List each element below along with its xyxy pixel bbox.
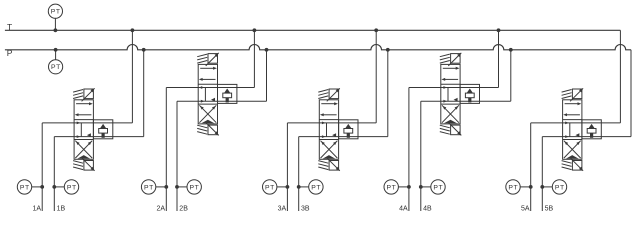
gauge PT port 1A — [17, 180, 31, 194]
actuator (spring + prop. solenoid) top V1 — [73, 96, 83, 99]
svg-text:5A: 5A — [521, 206, 530, 213]
junction on T bus at PT — [54, 28, 58, 32]
actuator (spring + prop. solenoid) bottom V2 — [197, 125, 207, 128]
actuator (spring + prop. solenoid) top V2 — [197, 61, 207, 64]
wire B/P passage section 1 — [54, 136, 143, 138]
svg-text:PT: PT — [311, 184, 321, 191]
node P bus line with crossover hops — [5, 44, 631, 49]
check valve block V3 — [339, 120, 358, 139]
valve V3 body (3-position) — [319, 100, 338, 160]
junction P bus / feed 4 — [509, 48, 513, 52]
wire port 5A line — [530, 123, 532, 211]
junction T bus / feed 1 — [131, 28, 135, 32]
wire port 1A line — [41, 123, 43, 211]
wire PT-5B connector — [542, 186, 552, 188]
junction 1B — [52, 185, 56, 189]
svg-text:PT: PT — [265, 184, 275, 191]
junction 3B — [297, 185, 301, 189]
svg-text:PT: PT — [51, 64, 61, 71]
actuator (spring + prop. solenoid) bottom V3 — [318, 161, 328, 164]
valve V5 crossed position — [564, 141, 581, 158]
valve V1 centre position detail — [80, 123, 82, 137]
junction 5B — [540, 185, 544, 189]
svg-text:2A: 2A — [157, 206, 166, 213]
gauge PT port 1B — [64, 180, 78, 194]
svg-text:1B: 1B — [57, 206, 66, 213]
wire port 1B line — [53, 137, 55, 211]
wire T feed drop section 2 — [253, 30, 255, 87]
valve V1 crossed position — [75, 141, 92, 158]
wire A/T passage section 2 — [166, 87, 254, 89]
gauge PT port 3B — [309, 180, 323, 194]
wire PT-1A connector — [32, 186, 43, 188]
svg-text:T: T — [7, 22, 12, 32]
junction 2A — [164, 185, 168, 189]
svg-text:5B: 5B — [545, 206, 554, 213]
valve V2 body (3-position) — [198, 64, 217, 124]
wire port 2B line — [176, 101, 178, 211]
valve V4 crossed position — [442, 105, 459, 122]
wire PT-P stem — [55, 50, 57, 60]
valve V4 top position arrows — [443, 67, 456, 69]
wire B/P passage section 5 — [542, 136, 631, 138]
junction 3A — [286, 185, 290, 189]
gauge PT port 4B — [431, 180, 445, 194]
wire A/T passage section 3 — [287, 122, 376, 124]
svg-text:3B: 3B — [301, 206, 310, 213]
actuator (spring + prop. solenoid) top V5 — [562, 96, 572, 99]
wire PT-4A connector — [398, 186, 409, 188]
svg-text:4A: 4A — [399, 206, 408, 213]
gauge PT on T bus — [48, 4, 62, 18]
wire A/T passage section 5 — [531, 122, 621, 124]
actuator (spring + prop. solenoid) top V4 — [440, 61, 450, 64]
node T bus line — [5, 29, 621, 31]
junction T bus / feed 2 — [253, 28, 257, 32]
svg-text:3A: 3A — [278, 206, 287, 213]
wire port 5B line — [541, 137, 543, 211]
wire P feed drop section 3 — [387, 50, 389, 137]
wire P feed drop section 2 — [266, 50, 268, 101]
gauge PT port 3A — [263, 180, 277, 194]
svg-text:PT: PT — [433, 184, 443, 191]
wire P bus right drop (to section 5) — [630, 50, 632, 137]
valve V3 top position arrows — [321, 103, 334, 105]
valve V2 crossed position — [199, 105, 216, 122]
svg-text:PT: PT — [67, 184, 77, 191]
valve V4 centre position detail — [447, 88, 449, 102]
svg-text:PT: PT — [555, 184, 565, 191]
svg-text:PT: PT — [190, 184, 200, 191]
wire PT-2B connector — [177, 186, 187, 188]
wire PT-1B connector — [54, 186, 64, 188]
svg-text:1A: 1A — [32, 206, 41, 213]
valve V5 top position arrows — [565, 103, 578, 105]
junction 4B — [419, 185, 423, 189]
valve V5 body (3-position) — [563, 100, 582, 160]
wire T bus right drop (to section 5) — [619, 30, 621, 123]
valve V1 body (3-position) — [74, 100, 93, 160]
svg-text:P: P — [7, 48, 13, 58]
svg-text:PT: PT — [144, 184, 154, 191]
wire T feed drop section 4 — [498, 30, 500, 87]
check valve block V4 — [460, 84, 479, 103]
junction P bus / feed 3 — [386, 48, 390, 52]
junction P bus / feed 2 — [265, 48, 269, 52]
wire P feed drop section 4 — [510, 50, 512, 101]
actuator (spring + prop. solenoid) bottom V1 — [73, 161, 83, 164]
wire T feed drop section 1 — [131, 30, 133, 123]
gauge PT port 2A — [141, 180, 155, 194]
gauge PT port 2B — [187, 180, 201, 194]
gauge PT port 5A — [506, 180, 520, 194]
wire PT-T stem — [54, 18, 56, 30]
actuator (spring + prop. solenoid) bottom V4 — [440, 125, 450, 128]
valve V1 top position arrows — [76, 103, 89, 105]
check valve block V5 — [582, 120, 601, 139]
valve V3 centre position detail — [326, 123, 328, 137]
junction P bus / feed 1 — [142, 48, 146, 52]
wire port 4A line — [408, 88, 410, 212]
wire T feed drop section 3 — [375, 30, 377, 123]
wire B/P passage section 3 — [299, 136, 388, 138]
junction 4A — [407, 185, 411, 189]
svg-text:PT: PT — [20, 184, 30, 191]
valve V2 centre position detail — [204, 88, 206, 102]
svg-text:2B: 2B — [179, 206, 188, 213]
wire port 3B line — [298, 137, 300, 211]
wire PT-4B connector — [421, 186, 431, 188]
gauge PT port 5B — [552, 180, 566, 194]
svg-text:PT: PT — [51, 9, 61, 16]
wire port 2A line — [165, 88, 167, 212]
actuator (spring + prop. solenoid) bottom V5 — [562, 161, 572, 164]
gauge PT port 4A — [384, 180, 398, 194]
junction T bus / feed 4 — [497, 28, 501, 32]
wire PT-3A connector — [277, 186, 288, 188]
junction 1A — [40, 185, 44, 189]
wire PT-2A connector — [156, 186, 167, 188]
junction T bus / feed 3 — [374, 28, 378, 32]
svg-text:PT: PT — [387, 184, 397, 191]
wire B/P passage section 4 — [421, 100, 511, 102]
junction 5A — [529, 185, 533, 189]
svg-text:4B: 4B — [423, 206, 432, 213]
wire PT-3B connector — [299, 186, 309, 188]
valve V4 body (3-position) — [441, 64, 460, 124]
wire P feed drop section 1 — [143, 50, 145, 137]
gauge PT on P bus — [49, 60, 63, 74]
valve V5 centre position detail — [569, 123, 571, 137]
wire A/T passage section 1 — [42, 122, 132, 124]
wire A/T passage section 4 — [409, 87, 499, 89]
wire PT-5A connector — [520, 186, 531, 188]
check valve block V2 — [218, 84, 237, 103]
wire B/P passage section 2 — [177, 100, 267, 102]
valve V2 top position arrows — [200, 67, 213, 69]
wire port 3A line — [286, 123, 288, 211]
wire port 4B line — [420, 101, 422, 211]
valve V3 crossed position — [321, 141, 338, 158]
svg-text:PT: PT — [508, 184, 518, 191]
junction on P bus at PT — [54, 48, 58, 52]
actuator (spring + prop. solenoid) top V3 — [318, 96, 328, 99]
junction 2B — [175, 185, 179, 189]
check valve block V1 — [93, 120, 112, 139]
